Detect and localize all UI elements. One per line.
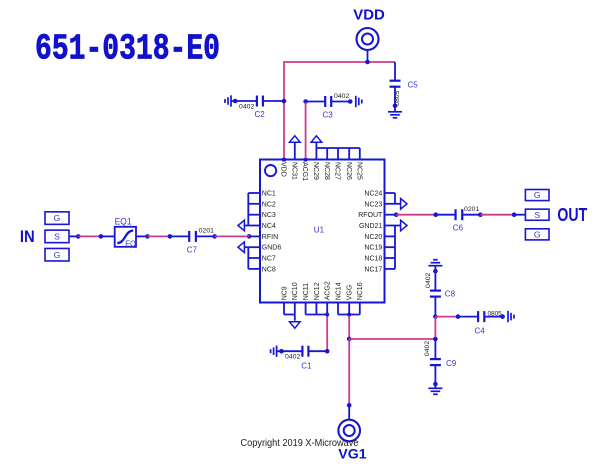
- svg-text:0402: 0402: [424, 341, 431, 357]
- svg-text:G: G: [54, 213, 61, 223]
- svg-text:C2: C2: [255, 110, 266, 119]
- svg-text:651-0318-E0: 651-0318-E0: [35, 28, 220, 69]
- svg-text:C7: C7: [187, 245, 198, 254]
- wire NC4 arrow stub: [245, 225, 249, 227]
- svg-text:ACG2: ACG2: [325, 281, 332, 300]
- svg-text:S: S: [54, 232, 60, 242]
- wire GND21 arrow stub: [395, 225, 400, 227]
- wire C7-RFIN pink: [215, 235, 249, 237]
- no-connect bus NC29-NC25: [316, 147, 359, 149]
- wire C3 left: [306, 101, 326, 103]
- svg-text:NC23: NC23: [364, 201, 382, 208]
- pin dot VG1: [347, 403, 352, 408]
- svg-text:VDD: VDD: [353, 6, 385, 23]
- pin dot OUT: [512, 212, 517, 217]
- VDD port symbol: [357, 28, 379, 50]
- wire C6-OUT pink: [480, 214, 514, 216]
- ground C4: [507, 311, 509, 322]
- wire C5 top: [394, 62, 396, 80]
- svg-text:NC11: NC11: [303, 283, 310, 300]
- svg-text:Copyright 2019 X-Microwave: Copyright 2019 X-Microwave: [241, 438, 359, 449]
- op-amp U1 body: [260, 160, 385, 303]
- svg-text:VDD: VDD: [280, 162, 287, 177]
- wire IN pink: [78, 235, 101, 237]
- wire EQ1 out stub: [136, 235, 148, 237]
- EQ1 curve: [117, 231, 133, 244]
- wire VDD stub: [367, 50, 369, 62]
- junction VGG tee: [347, 337, 352, 342]
- no-connect arrow GND6: [238, 242, 244, 253]
- svg-text:OUT: OUT: [557, 204, 587, 225]
- wire C5 bottom: [394, 87, 396, 111]
- pin dot EQ1 out: [145, 234, 150, 239]
- pin square ACG2 bus: [325, 313, 329, 317]
- no-connect arrow NC10: [290, 322, 301, 328]
- capacitor C8: [430, 290, 441, 292]
- svg-text:NC7: NC7: [262, 256, 276, 263]
- pin dot C9 bottom: [433, 382, 438, 387]
- wire C2 ground stub: [231, 100, 256, 102]
- wire EQ1-C7 pink: [148, 235, 170, 237]
- svg-text:NC12: NC12: [314, 282, 321, 300]
- pin square VDD: [282, 158, 286, 162]
- wire C2 to VDD net: [263, 100, 284, 102]
- svg-text:NC14: NC14: [335, 282, 342, 300]
- IN pad G bottom: [45, 248, 69, 261]
- no-connect arrow NC29: [311, 136, 322, 142]
- pin dot C4 right: [500, 314, 505, 319]
- wire NC29 arrow stub: [315, 143, 317, 148]
- IN pad S: [45, 230, 69, 243]
- pin dot C7 left: [168, 234, 173, 239]
- svg-text:NC20: NC20: [364, 234, 382, 241]
- pin dot C6 right: [478, 212, 483, 217]
- svg-text:NC18: NC18: [364, 256, 382, 263]
- OUT pad G top: [525, 190, 549, 201]
- wire C4 right: [484, 316, 503, 318]
- svg-text:NC3: NC3: [262, 212, 276, 219]
- svg-text:C5: C5: [408, 81, 419, 90]
- wire C8 top stub: [434, 266, 436, 292]
- svg-text:0402: 0402: [285, 354, 301, 361]
- OUT pad S: [525, 209, 549, 220]
- pin dot C3 right: [348, 99, 353, 104]
- wire C8 bottom: [434, 296, 436, 317]
- ground C2: [230, 95, 232, 106]
- svg-text:C3: C3: [323, 110, 334, 119]
- wire C6 right: [462, 214, 480, 216]
- no-connect bus NC9-NC10: [283, 303, 285, 315]
- no-connect bus NC1-NC4: [247, 193, 249, 226]
- wire C4 left blue: [458, 316, 478, 318]
- capacitor C5: [390, 80, 401, 82]
- svg-text:EQ1: EQ1: [115, 217, 132, 227]
- wire NC10 arrow stub: [294, 315, 296, 321]
- wire GND6 arrow stub: [245, 246, 249, 248]
- wire C1 right: [309, 350, 327, 352]
- svg-text:0201: 0201: [199, 227, 215, 234]
- svg-text:NC16: NC16: [357, 282, 364, 300]
- no-connect bus GND21-NC17: [394, 226, 396, 269]
- capacitor C9: [430, 358, 441, 360]
- svg-text:C6: C6: [453, 223, 464, 232]
- no-connect bus GND6-NC8: [247, 247, 249, 269]
- wire RFOUT exit blue: [385, 214, 397, 216]
- svg-text:NC28: NC28: [323, 162, 330, 180]
- svg-text:NC31: NC31: [290, 162, 297, 180]
- junction VDD rail: [365, 60, 370, 65]
- junction RFOUT: [394, 212, 399, 217]
- capacitor C3: [324, 96, 326, 107]
- no-connect arrow GND21: [401, 220, 407, 231]
- U1 pin-1 marker: [265, 165, 276, 176]
- ground C3: [355, 96, 357, 107]
- wire IN stub: [69, 235, 78, 237]
- svg-text:U1: U1: [314, 226, 325, 235]
- pin dot IN: [76, 234, 81, 239]
- no-connect arrow NC31: [290, 136, 301, 142]
- wire VGG drop: [348, 315, 350, 340]
- wire ACG2 drop: [326, 315, 328, 352]
- capacitor C7: [188, 231, 190, 242]
- svg-text:NC1: NC1: [262, 191, 276, 198]
- wire C8-C9 pink: [434, 317, 436, 339]
- wire C9 bottom: [434, 365, 436, 388]
- wire NC31 stub: [294, 143, 296, 160]
- wire C1 ground stub: [277, 350, 303, 352]
- junction C2 tap: [282, 99, 287, 104]
- wire C7 left: [170, 235, 189, 237]
- wire C4 pink: [435, 316, 458, 318]
- svg-text:NC2: NC2: [262, 201, 276, 208]
- junction C3 left corner: [303, 99, 308, 104]
- capacitor C1: [301, 346, 303, 357]
- wire VDD to pin VDD vertical: [283, 61, 285, 159]
- svg-text:G: G: [534, 190, 541, 200]
- wire VGG down to VG1: [348, 339, 350, 405]
- svg-text:0201: 0201: [464, 206, 480, 213]
- svg-text:IN: IN: [20, 227, 35, 246]
- pin square VGG bus: [347, 313, 351, 317]
- pin dot EQ1 in: [99, 234, 104, 239]
- junction C8/C4 node: [433, 314, 438, 319]
- OUT pad G bottom: [525, 229, 549, 240]
- svg-text:C9: C9: [446, 359, 457, 368]
- pin dot C6 left: [433, 212, 438, 217]
- svg-text:NC25: NC25: [355, 162, 362, 180]
- wire RFOUT pink: [396, 214, 436, 216]
- no-connect bus NC24-NC23: [394, 193, 396, 204]
- ground C5: [388, 111, 402, 113]
- pin dot C8 top: [433, 269, 438, 274]
- svg-text:0805: 0805: [394, 90, 401, 106]
- svg-text:NC4: NC4: [262, 223, 276, 230]
- no-connect arrow NC4: [238, 220, 244, 231]
- svg-text:ACG1: ACG1: [301, 162, 308, 181]
- junction C1 corner: [325, 349, 330, 354]
- svg-text:GND21: GND21: [359, 223, 382, 230]
- pin dot C7 right: [212, 234, 217, 239]
- svg-text:0805: 0805: [488, 310, 503, 317]
- svg-text:NC9: NC9: [281, 286, 288, 300]
- equalizer EQ1 box: [115, 227, 136, 247]
- wire C6 left: [436, 214, 456, 216]
- IN pad G top: [45, 212, 69, 225]
- junction VGG row: [433, 337, 438, 342]
- svg-text:C1: C1: [301, 362, 312, 371]
- wire to EQ1: [101, 235, 115, 237]
- capacitor C2: [256, 96, 258, 107]
- pin dot C2 left: [233, 99, 238, 104]
- svg-text:G: G: [534, 229, 541, 239]
- ground C1: [276, 346, 278, 357]
- svg-text:C8: C8: [445, 290, 456, 299]
- wire C9 top: [434, 339, 436, 359]
- pin dot C5 bottom: [393, 104, 398, 109]
- svg-text:G: G: [54, 250, 61, 260]
- wire OUT stub: [514, 214, 525, 216]
- no-connect bus NC14-NC16: [337, 303, 339, 315]
- svg-text:GND6: GND6: [262, 245, 282, 252]
- svg-text:S: S: [534, 210, 540, 220]
- capacitor C6: [454, 209, 456, 220]
- wire RFIN entry: [249, 235, 261, 237]
- svg-text:0402: 0402: [334, 93, 350, 100]
- pin dot C4 left: [456, 314, 461, 319]
- ground C8: [428, 265, 442, 267]
- svg-text:0402: 0402: [239, 104, 255, 111]
- junction RFIN: [247, 234, 252, 239]
- svg-text:NC27: NC27: [334, 162, 341, 180]
- svg-text:NC26: NC26: [345, 162, 352, 180]
- wire C7 right: [196, 235, 215, 237]
- wire ACG1 riser: [305, 102, 307, 160]
- svg-text:0402: 0402: [425, 272, 432, 288]
- wire VGG to C9 node: [349, 338, 435, 340]
- svg-text:NC19: NC19: [364, 245, 382, 252]
- svg-text:NC17: NC17: [364, 266, 382, 273]
- no-connect arrow NC23: [401, 199, 407, 210]
- wire VDD rail horizontal: [284, 61, 395, 63]
- VG1 port symbol: [338, 420, 360, 442]
- no-connect bus NC11-ACG2: [305, 303, 307, 315]
- wire NC23 arrow stub: [395, 203, 400, 205]
- svg-text:VGG: VGG: [347, 285, 354, 301]
- wire C3 right: [332, 101, 351, 103]
- pin square ACG1: [304, 158, 308, 162]
- svg-text:NC8: NC8: [262, 266, 276, 273]
- wire VG1 stub: [348, 405, 350, 420]
- pin dot C1 left: [279, 349, 284, 354]
- svg-text:NC29: NC29: [312, 162, 319, 180]
- svg-text:NC24: NC24: [364, 191, 382, 198]
- svg-text:C4: C4: [475, 327, 486, 336]
- svg-text:RFIN: RFIN: [262, 234, 278, 241]
- svg-text:RFOUT: RFOUT: [358, 212, 383, 219]
- ground C9: [428, 387, 442, 389]
- svg-text:EQ: EQ: [125, 239, 136, 249]
- capacitor C4: [477, 311, 479, 322]
- svg-text:NC10: NC10: [292, 282, 299, 300]
